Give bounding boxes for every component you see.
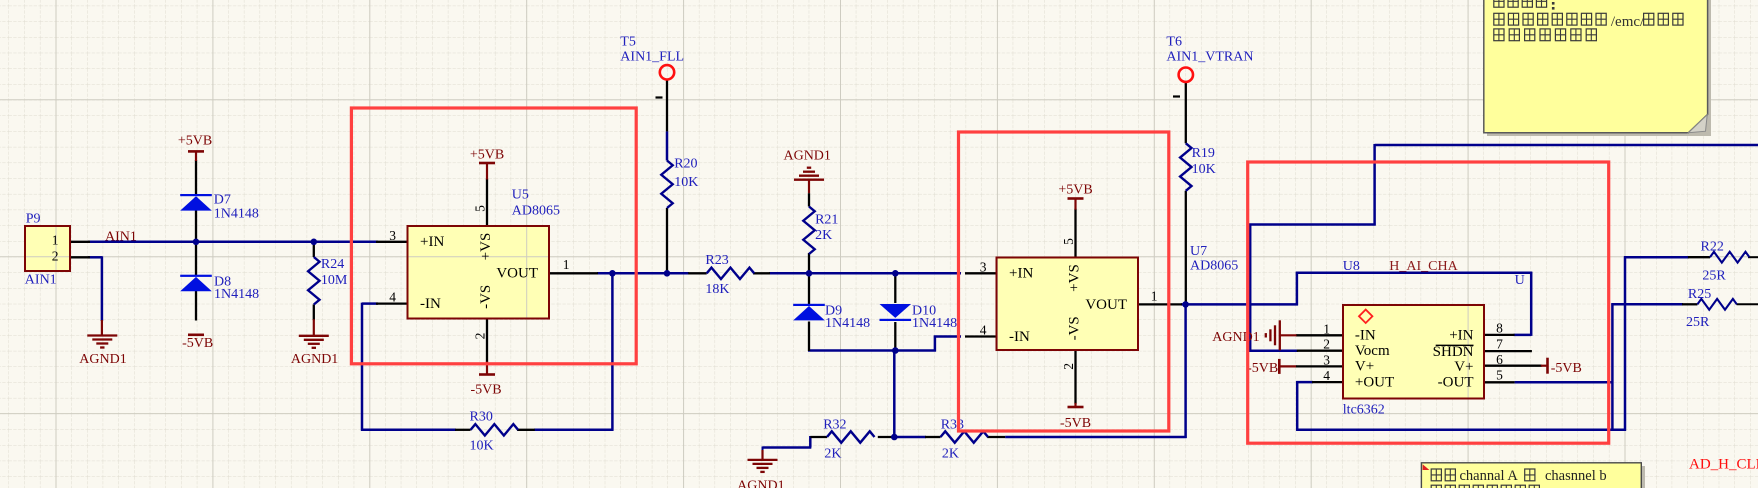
svg-text:D7: D7 (214, 193, 231, 208)
svg-text:2: 2 (473, 333, 488, 340)
svg-text:10M: 10M (321, 273, 348, 288)
svg-text:+IN: +IN (1009, 266, 1033, 282)
svg-text:-5VB: -5VB (1060, 416, 1091, 431)
svg-text:5: 5 (1061, 238, 1076, 245)
svg-text:/emc/: /emc/ (1611, 14, 1645, 30)
svg-text:R20: R20 (674, 157, 697, 172)
svg-text:-5VB: -5VB (1247, 361, 1278, 376)
svg-text:...: ... (1546, 484, 1557, 488)
svg-text:4: 4 (980, 323, 987, 338)
svg-text:1N4148: 1N4148 (825, 316, 870, 331)
svg-text:+VS: +VS (478, 233, 494, 261)
svg-text:+5VB: +5VB (470, 148, 504, 163)
svg-text:-5VB: -5VB (470, 383, 501, 398)
svg-text:R19: R19 (1192, 146, 1215, 161)
svg-text:U: U (1515, 273, 1525, 288)
svg-text:V+: V+ (1355, 359, 1374, 375)
svg-text:U7: U7 (1190, 244, 1207, 259)
svg-text:4: 4 (1323, 368, 1330, 383)
svg-text:+5VB: +5VB (1058, 183, 1092, 198)
svg-text:25R: 25R (1702, 268, 1726, 283)
svg-text:5: 5 (1496, 368, 1503, 383)
svg-text:H_AI_CHA: H_AI_CHA (1389, 259, 1458, 274)
svg-text:-IN: -IN (1009, 329, 1030, 345)
svg-text:VOUT: VOUT (496, 266, 538, 282)
svg-text:R23: R23 (705, 253, 728, 268)
svg-text:2K: 2K (942, 447, 959, 462)
svg-text:10K: 10K (674, 175, 698, 190)
svg-text:1: 1 (1323, 321, 1330, 336)
svg-text:R25: R25 (1688, 287, 1711, 302)
svg-text:1N4148: 1N4148 (214, 287, 259, 302)
svg-text:-IN: -IN (420, 296, 441, 312)
svg-text:7: 7 (1496, 336, 1503, 351)
svg-text:R32: R32 (823, 418, 846, 433)
svg-text:AIN1: AIN1 (25, 272, 57, 287)
svg-text:3: 3 (1323, 352, 1330, 367)
svg-text:4: 4 (389, 290, 396, 305)
svg-text:R30: R30 (470, 410, 493, 425)
svg-text:2: 2 (1323, 337, 1330, 352)
svg-text:AGND1: AGND1 (737, 479, 784, 488)
svg-text:-VS: -VS (1067, 316, 1083, 340)
svg-text:+5VB: +5VB (178, 134, 212, 149)
svg-text:3: 3 (389, 228, 396, 243)
svg-text:+VS: +VS (1067, 264, 1083, 292)
svg-text:U8: U8 (1343, 259, 1360, 274)
svg-text:1N4148: 1N4148 (912, 316, 957, 331)
svg-text:AGND1: AGND1 (79, 352, 126, 367)
svg-text:-VS: -VS (478, 285, 494, 309)
svg-text:R24: R24 (321, 257, 344, 272)
svg-text:-5VB: -5VB (1551, 361, 1582, 376)
svg-text:5: 5 (473, 205, 488, 212)
svg-text:2K: 2K (824, 447, 841, 462)
svg-text:VOUT: VOUT (1085, 297, 1127, 313)
svg-text:V+: V+ (1454, 359, 1473, 375)
svg-text:+IN: +IN (420, 234, 444, 250)
svg-text:T5: T5 (620, 35, 636, 50)
svg-text:Vocm: Vocm (1355, 343, 1390, 359)
svg-text:channal A: channal A (1460, 468, 1519, 484)
svg-text:AD_H_CLK: AD_H_CLK (1689, 456, 1758, 472)
svg-text:AIN1: AIN1 (105, 230, 137, 245)
svg-text:AGND1: AGND1 (291, 352, 338, 367)
svg-text:U5: U5 (512, 187, 529, 202)
svg-text:6: 6 (1496, 352, 1503, 367)
svg-text:AGND1: AGND1 (783, 149, 830, 164)
svg-text:+OUT: +OUT (1355, 374, 1394, 390)
svg-text:R22: R22 (1701, 239, 1724, 254)
svg-text:1: 1 (563, 257, 570, 272)
svg-text:P9: P9 (26, 212, 41, 227)
svg-text:AIN1_VTRAN: AIN1_VTRAN (1166, 50, 1253, 65)
svg-text:2: 2 (1061, 363, 1076, 370)
svg-text:10K: 10K (1192, 162, 1216, 177)
svg-text:T6: T6 (1166, 35, 1182, 50)
svg-text:-OUT: -OUT (1438, 375, 1474, 391)
svg-text:ltc6362: ltc6362 (1343, 402, 1385, 417)
svg-text:8: 8 (1496, 321, 1503, 336)
svg-text:chasnnel b: chasnnel b (1545, 468, 1607, 484)
svg-text:1N4148: 1N4148 (214, 206, 259, 221)
svg-text:18K: 18K (705, 282, 729, 297)
svg-text:AIN1_FLL: AIN1_FLL (620, 50, 684, 65)
svg-text:AGND1: AGND1 (1212, 330, 1259, 345)
svg-text:SHDN: SHDN (1433, 344, 1474, 360)
svg-text:-IN: -IN (1355, 327, 1376, 343)
svg-text:10K: 10K (470, 438, 494, 453)
svg-text:AD8065: AD8065 (1190, 258, 1238, 273)
svg-text:1: 1 (1151, 288, 1158, 303)
svg-text:R21: R21 (815, 213, 838, 228)
svg-text:AD8065: AD8065 (512, 204, 560, 219)
svg-text:2K: 2K (815, 228, 832, 243)
svg-text:25R: 25R (1686, 315, 1710, 330)
svg-text:1: 1 (52, 233, 59, 248)
svg-text:3: 3 (980, 259, 987, 274)
svg-text:2: 2 (52, 249, 59, 264)
svg-text:-5VB: -5VB (182, 336, 213, 351)
svg-text:+IN: +IN (1449, 327, 1473, 343)
